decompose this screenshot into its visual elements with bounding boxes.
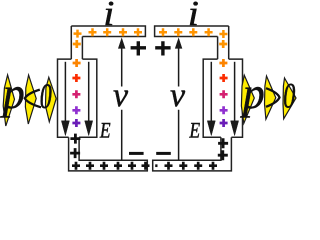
svg-text:v: v (170, 77, 186, 114)
svg-text:p: p (0, 69, 25, 118)
orange + charges on top-right wire (159, 28, 227, 38)
radiated power triangle right-3 (283, 78, 296, 119)
svg-text:E: E (189, 119, 201, 143)
v arrow left (up) (118, 38, 125, 160)
radiated power triangle right-1 (241, 75, 254, 123)
E field arrow right-inner (down) (207, 62, 215, 136)
radiated power triangle left-1 (3, 75, 14, 126)
svg-text:0: 0 (40, 76, 52, 116)
charge column right (gradient orange to violet) (219, 40, 227, 127)
charge column left (gradient orange to violet) (72, 40, 80, 127)
wire top-right conductor outline (155, 26, 229, 59)
E field arrow left-outer (down) (85, 62, 93, 136)
bold - terminal bottom-right (156, 152, 171, 155)
bold + terminal top-left (131, 41, 146, 55)
bold - terminal bottom-left (129, 152, 144, 155)
bold + terminal top-right (155, 41, 170, 55)
svg-text:i: i (188, 0, 199, 34)
wire bottom-left conductor outline (69, 137, 148, 171)
radiated power triangle left-3 (46, 77, 57, 122)
black + charges bottom-left neck (70, 134, 80, 159)
v arrow right (up) (175, 38, 182, 160)
black + charges on bottom-right wire (first clipped to dot) (155, 162, 217, 170)
black + charges on bottom-left wire (72, 162, 150, 170)
svg-text:p: p (240, 69, 265, 118)
svg-text:v: v (113, 77, 129, 114)
wire bottom-right conductor outline (153, 137, 232, 171)
E field arrow left-inner (down) (61, 62, 69, 136)
svg-text:E: E (99, 119, 111, 143)
right element box (capacitor plates outline) (203, 59, 242, 137)
succeeds symbol (right) (266, 88, 280, 107)
wire top-left conductor outline (71, 26, 145, 59)
precedes symbol (left) (25, 90, 41, 108)
E field arrow right-outer (down) (231, 62, 239, 136)
orange + charges on top-left wire (74, 28, 143, 37)
svg-text:0: 0 (283, 76, 295, 116)
radiated power triangle right-2 (265, 76, 276, 119)
black + charges bottom-right neck (218, 138, 228, 160)
radiated power triangle left-2 (25, 75, 36, 124)
left element box (capacitor plates outline) (58, 59, 97, 137)
svg-text:i: i (103, 0, 114, 34)
